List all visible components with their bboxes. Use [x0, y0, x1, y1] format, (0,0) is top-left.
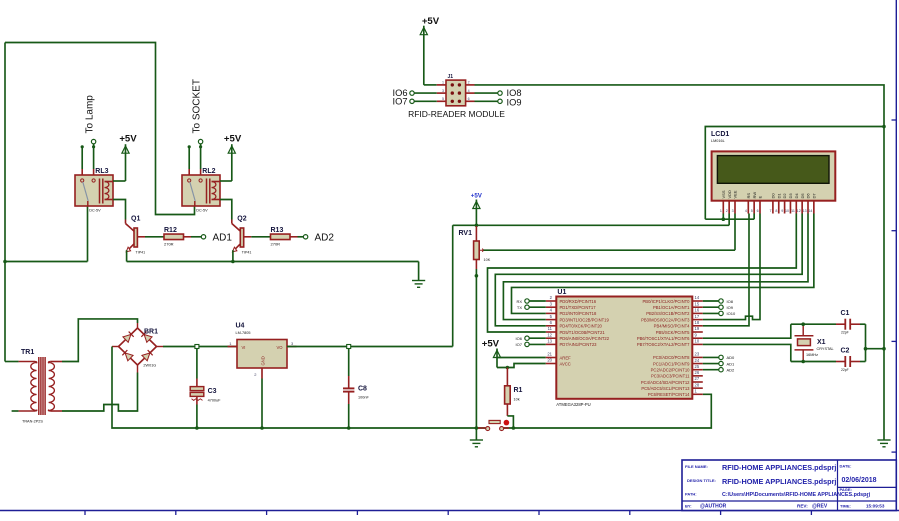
svg-text:PB0/ICP1/CLKO/PCINT0: PB0/ICP1/CLKO/PCINT0: [642, 299, 690, 304]
junction C3 top: [195, 345, 199, 349]
svg-text:IO7: IO7: [516, 342, 523, 347]
connector J1 RFID-READER MODULE: [408, 74, 505, 119]
svg-text:REV:: REV:: [797, 504, 808, 509]
wire LCD E to U1 pin17 with hop: [703, 214, 760, 320]
svg-text:Q1: Q1: [131, 216, 140, 223]
svg-text:D3: D3: [788, 193, 793, 199]
svg-text:AD2: AD2: [727, 368, 736, 373]
wire AREF: [497, 357, 546, 359]
svg-text:2W01G: 2W01G: [143, 364, 156, 368]
svg-text:IO8: IO8: [727, 299, 734, 304]
terminal AD2: [303, 233, 334, 244]
terminal IO7 at U1: [516, 342, 546, 347]
svg-text:PB4/MISO/PCINT4: PB4/MISO/PCINT4: [654, 324, 691, 329]
svg-text:RX: RX: [516, 299, 522, 304]
svg-text:RL2: RL2: [202, 168, 215, 175]
junction C8 bottom: [347, 426, 351, 430]
svg-text:BY:: BY:: [685, 504, 692, 509]
svg-text:PC4/ADC4/SDA/PCINT12: PC4/ADC4/SDA/PCINT12: [641, 380, 690, 385]
node RL2 pin dots: [188, 145, 203, 148]
transistor Q1: [126, 216, 146, 255]
svg-text:PD2/INT0/PCINT18: PD2/INT0/PCINT18: [560, 311, 597, 316]
svg-text:13: 13: [547, 339, 552, 344]
terminal IO7 at J1: [393, 96, 437, 106]
wire RV1 wiper to LCD VEE: [484, 249, 736, 251]
svg-text:PD3/INT1/OC2B/PCINT19: PD3/INT1/OC2B/PCINT19: [560, 317, 610, 322]
svg-text:VO: VO: [276, 345, 283, 350]
potentiometer RV1: [459, 225, 491, 428]
svg-text:5: 5: [442, 97, 444, 101]
title block frame: [682, 460, 896, 511]
svg-text:PC1/ADC1/PCINT9: PC1/ADC1/PCINT9: [653, 361, 690, 366]
wire emitter ground rail: [127, 262, 419, 281]
svg-text:IO10: IO10: [727, 311, 736, 316]
capacitor C1: [836, 310, 866, 335]
junction C3 bottom: [195, 426, 199, 430]
svg-text:3: 3: [442, 89, 444, 93]
svg-text:16MHz: 16MHz: [806, 353, 818, 357]
svg-text:VEE: VEE: [733, 190, 738, 198]
svg-text:X1: X1: [817, 339, 826, 346]
terminal IO9 at J1: [475, 98, 522, 108]
LCD LCD1 LM016L body: [711, 131, 835, 201]
svg-text:PC5/ADC5/SCL/PCINT13: PC5/ADC5/SCL/PCINT13: [641, 386, 690, 391]
svg-text:IO9: IO9: [507, 98, 522, 108]
svg-text:RW: RW: [752, 192, 757, 199]
wire LCD RS to U1 pin18: [703, 214, 749, 326]
wire LCD VDD to +5V line: [453, 214, 729, 226]
svg-text:D7: D7: [811, 193, 816, 199]
svg-text:C3: C3: [208, 388, 217, 395]
svg-text:PB7/TOSC2/XTAL2/PCINT7: PB7/TOSC2/XTAL2/PCINT7: [637, 342, 690, 347]
terminal AD2 at U1: [703, 368, 735, 373]
ground symbol RV1: [470, 428, 483, 447]
wire Q1 emitter to ground rail: [126, 250, 128, 261]
capacitor C8: [343, 347, 369, 429]
resistor R1: [505, 368, 523, 429]
svg-text:DC-5V: DC-5V: [89, 208, 101, 212]
power +5V AREF: [482, 338, 501, 367]
junction C8 top: [347, 345, 351, 349]
svg-text:PATH:: PATH:: [685, 491, 697, 496]
junction crystal top: [801, 322, 805, 326]
relay RL3: [75, 168, 113, 212]
node RL3 pin dots: [81, 145, 96, 148]
svg-text:11: 11: [548, 326, 553, 331]
wire U1 pin10 to crystal XTAL2: [703, 344, 791, 361]
svg-text:RFID-HOME APPLIANCES.pdsprj: RFID-HOME APPLIANCES.pdsprj: [722, 477, 836, 486]
svg-text:10k: 10k: [514, 398, 520, 402]
svg-text:270R: 270R: [271, 241, 281, 246]
wire bridge positive rail to U4: [163, 346, 237, 348]
svg-text:VDD: VDD: [727, 190, 732, 199]
crystal X1: [795, 324, 834, 361]
svg-text:23: 23: [695, 352, 700, 357]
svg-text:9: 9: [781, 209, 783, 213]
svg-text:8: 8: [775, 209, 777, 213]
svg-text:VSS: VSS: [721, 190, 726, 198]
svg-text:D2: D2: [782, 193, 787, 199]
sheet border zone ticks bottom: [85, 511, 811, 516]
svg-text:PD1/TXD/PCINT17: PD1/TXD/PCINT17: [560, 305, 597, 310]
svg-text:26: 26: [695, 370, 700, 375]
push button RESET: [478, 420, 509, 431]
svg-text:PB6/TOSC1/XTAL1/PCINT6: PB6/TOSC1/XTAL1/PCINT6: [637, 336, 690, 341]
svg-text:TX: TX: [517, 305, 522, 310]
junction RV1 ground rail: [475, 426, 479, 430]
svg-text:02/06/2018: 02/06/2018: [842, 477, 877, 484]
svg-text:5: 5: [751, 209, 753, 213]
junction Q2 emitter on rail: [231, 260, 235, 264]
wire secondary top to bridge top: [62, 319, 138, 362]
terminal AD1 at U1: [703, 361, 735, 366]
svg-text:RS: RS: [746, 193, 751, 199]
wire RL3 pin stubs top: [82, 144, 93, 169]
wire RL3 coil bottom to Q1 collector: [113, 200, 126, 220]
wire bridge negative to ground rail: [112, 347, 197, 429]
microcontroller U1 ATMEGA328P-PU body: [556, 289, 692, 407]
junction ground riser: [882, 347, 886, 351]
svg-text:TIME:: TIME:: [840, 504, 851, 509]
svg-text:R12: R12: [164, 227, 177, 234]
terminal TX: [517, 305, 546, 310]
svg-text:13: 13: [803, 209, 807, 213]
terminal IO8 at J1: [475, 88, 522, 98]
wire bus D6 to U1 pin5: [503, 214, 808, 320]
svg-text:IO9: IO9: [727, 305, 734, 310]
svg-text:TRAN-2P2S: TRAN-2P2S: [22, 420, 43, 424]
ground symbol right: [877, 440, 890, 447]
ground symbol transistor rail: [412, 281, 425, 288]
svg-text:24: 24: [695, 358, 700, 363]
wire U4 output +5V rail: [287, 346, 453, 348]
svg-text:19: 19: [695, 326, 700, 331]
svg-text:R13: R13: [271, 227, 284, 234]
svg-text:D6: D6: [806, 193, 811, 199]
wire bus D5 to U1 pin6: [495, 214, 802, 326]
svg-text:AD0: AD0: [727, 355, 736, 360]
svg-text:LM016L: LM016L: [711, 139, 725, 143]
svg-text:27: 27: [695, 376, 700, 381]
svg-text:+5V: +5V: [422, 16, 440, 27]
svg-text:PD7/AIN1/PCINT23: PD7/AIN1/PCINT23: [560, 342, 598, 347]
svg-text:6: 6: [757, 209, 759, 213]
junction LCD VSS: [722, 217, 726, 221]
sheet border right edge: [895, 0, 897, 511]
svg-text:PB5/SCK/PCINT5: PB5/SCK/PCINT5: [656, 330, 690, 335]
regulator U4 LM-7805: [228, 323, 297, 378]
svg-text:PAGE:: PAGE:: [840, 487, 852, 492]
svg-text:AD1: AD1: [727, 361, 736, 366]
wire crystal top rail: [791, 323, 836, 325]
svg-text:1: 1: [720, 209, 722, 213]
svg-text:PD6/AIN0/OC0A/PCINT22: PD6/AIN0/OC0A/PCINT22: [560, 336, 610, 341]
svg-text:22pF: 22pF: [841, 368, 849, 372]
svg-text:12: 12: [797, 209, 801, 213]
svg-text:6: 6: [468, 97, 470, 101]
svg-text:IO6: IO6: [516, 336, 523, 341]
svg-text:FILE NAME:: FILE NAME:: [685, 464, 708, 469]
svg-text:15:09:53: 15:09:53: [866, 504, 885, 509]
svg-text:U1: U1: [557, 289, 566, 296]
svg-text:C1: C1: [841, 310, 850, 317]
junction RV1 top +5V: [475, 224, 479, 228]
svg-text:C8: C8: [358, 386, 367, 393]
wire R12 to AD1: [184, 236, 202, 238]
svg-text:11: 11: [791, 209, 795, 213]
svg-text:RFID-READER MODULE: RFID-READER MODULE: [408, 109, 505, 119]
terminal AD0 at U1: [703, 355, 735, 360]
svg-text:D5: D5: [800, 193, 805, 199]
capacitor C2: [836, 347, 866, 372]
junction RV1 lower: [475, 274, 479, 278]
wire reset rail from button to U1 pin1: [504, 394, 712, 428]
svg-text:GND: GND: [260, 356, 265, 365]
svg-text:AREF: AREF: [560, 355, 572, 360]
svg-text:C:\Users\HP\Documents\RFID-HOM: C:\Users\HP\Documents\RFID-HOME APPLIANC…: [722, 492, 871, 498]
svg-text:E: E: [758, 196, 763, 199]
junction U4 GND on rail: [260, 426, 264, 430]
svg-text:To SOCKET: To SOCKET: [192, 79, 203, 133]
wire transformer primary bottom stub: [12, 410, 19, 412]
transformer TR1: [19, 349, 62, 424]
svg-text:22pF: 22pF: [841, 331, 849, 335]
U1 AREF AVCC pins: [546, 352, 571, 367]
wire R13 to AD2: [290, 236, 303, 238]
svg-text:10: 10: [785, 209, 789, 213]
svg-text:RFID-HOME APPLIANCES.pdsprj: RFID-HOME APPLIANCES.pdsprj: [722, 463, 836, 472]
wire +5V to J1 pin1: [424, 84, 437, 86]
svg-text:+5V: +5V: [119, 133, 137, 144]
svg-text:PB2/SS/OC1B/PCINT2: PB2/SS/OC1B/PCINT2: [646, 311, 690, 316]
wire RL3 coil top to +5V: [113, 180, 126, 182]
wire LCD VEE riser: [734, 214, 736, 251]
svg-text:PB1/OC1A/PCINT1: PB1/OC1A/PCINT1: [653, 305, 690, 310]
svg-text:16: 16: [695, 308, 700, 313]
svg-text:TR1: TR1: [21, 349, 34, 356]
svg-text:21: 21: [547, 352, 552, 357]
resistor R12: [164, 227, 184, 247]
terminal IO6 at U1: [516, 336, 546, 341]
wire U1 pin9 to crystal XTAL1: [703, 324, 791, 338]
title block texts: [685, 463, 885, 510]
svg-text:D4: D4: [794, 193, 799, 199]
svg-text:D1: D1: [776, 193, 781, 199]
svg-text:DATE:: DATE:: [840, 464, 852, 469]
svg-text:D0: D0: [771, 193, 776, 199]
svg-text:TIP41: TIP41: [242, 251, 252, 255]
svg-text:4: 4: [745, 209, 747, 213]
LCD pins stubs and labels: [720, 190, 817, 214]
wire U4 GND pin to ground rail: [261, 368, 263, 428]
svg-text:100nF: 100nF: [358, 396, 369, 400]
svg-text:PC6/RESET/PCINT14: PC6/RESET/PCINT14: [648, 392, 690, 397]
wire crystal bottom rail: [791, 361, 836, 363]
wire Q2 base to R13: [244, 236, 271, 238]
U1 right pins PB0-PB7: [637, 295, 703, 347]
svg-text:RL3: RL3: [95, 168, 108, 175]
svg-text:PD4/T0/XCK/PCINT20: PD4/T0/XCK/PCINT20: [560, 324, 603, 329]
svg-text:VI: VI: [242, 345, 246, 350]
svg-text:28: 28: [695, 382, 700, 387]
svg-text:+5V: +5V: [471, 193, 483, 200]
svg-text:PC2/ADC2/PCINT10: PC2/ADC2/PCINT10: [651, 368, 691, 373]
power +5V RL3: [119, 133, 137, 181]
terminal IO8 at U1: [703, 299, 734, 304]
svg-text:To Lamp: To Lamp: [85, 95, 96, 134]
svg-text:AD2: AD2: [315, 233, 335, 244]
wire RL2 pin stubs top: [189, 144, 200, 169]
wire RL2 coil bottom to Q2 collector: [220, 200, 232, 220]
bridge rectifier BR1: [112, 323, 163, 373]
svg-text:DC-5V: DC-5V: [196, 208, 208, 212]
svg-text:20: 20: [547, 358, 552, 363]
svg-text:10K: 10K: [484, 258, 491, 262]
svg-text:@AUTHOR: @AUTHOR: [700, 504, 727, 510]
wire Q2 emitter to ground rail: [232, 250, 234, 261]
wire RL2 coil top to +5V: [220, 180, 232, 182]
svg-text:7: 7: [770, 209, 772, 213]
wire bus D4 to U1 pin11: [488, 214, 797, 333]
svg-text:PB3/MOSI/OC2A/PCINT3: PB3/MOSI/OC2A/PCINT3: [641, 317, 690, 322]
wire AC rail to transformer primary top: [5, 361, 19, 363]
wire Q1 collector: [125, 220, 127, 224]
svg-text:Q2: Q2: [237, 216, 246, 223]
power +5V J1: [420, 16, 440, 85]
transistor Q2: [232, 216, 252, 255]
svg-text:12: 12: [547, 332, 552, 337]
svg-text:TIP41: TIP41: [136, 251, 146, 255]
U1 left pins PD0-PD7: [546, 295, 610, 347]
terminal To SOCKET: [192, 79, 203, 144]
wire secondary bottom to bridge bottom with hop: [62, 373, 138, 412]
wire RL3 contact to AC rail: [5, 206, 88, 262]
terminal RX: [516, 299, 545, 304]
junction R1 top: [506, 366, 510, 370]
svg-text:+5V: +5V: [482, 338, 500, 349]
resistor R13: [271, 227, 291, 247]
svg-text:270R: 270R: [164, 241, 174, 246]
svg-text:PD5/T1/OC0B/PCINT21: PD5/T1/OC0B/PCINT21: [560, 330, 606, 335]
svg-text:IO7: IO7: [393, 96, 408, 106]
wire +5V riser to VDD line: [452, 225, 454, 346]
svg-text:PC3/ADC3/PCINT11: PC3/ADC3/PCINT11: [651, 374, 690, 379]
U1 right pins PC0-PC6: [641, 352, 703, 398]
relay RL2: [182, 168, 220, 212]
sheet border bottom edge: [0, 510, 899, 512]
svg-text:CRYSTAL: CRYSTAL: [817, 347, 834, 351]
svg-text:4: 4: [468, 89, 470, 93]
svg-text:U4: U4: [236, 323, 245, 330]
svg-text:4700uF: 4700uF: [208, 399, 222, 403]
svg-text:RV1: RV1: [459, 230, 473, 237]
terminal To Lamp: [85, 95, 96, 144]
svg-text:LM-7805: LM-7805: [236, 331, 251, 335]
svg-text:LCD1: LCD1: [711, 131, 729, 138]
svg-text:17: 17: [695, 314, 700, 319]
svg-text:+5V: +5V: [224, 133, 242, 144]
wire LCD VSS to ground loop: [705, 127, 884, 441]
wire J1 pin2 to ground riser: [475, 85, 885, 127]
svg-text:ATMEGA328P-PU: ATMEGA328P-PU: [556, 402, 590, 407]
svg-text:BR1: BR1: [144, 329, 158, 336]
terminal IO9 at U1: [703, 305, 734, 310]
wire Q2 collector: [231, 220, 233, 224]
wire AC line left vertical rail: [4, 43, 6, 362]
svg-text:18: 18: [695, 320, 700, 325]
junction ground loop top: [882, 125, 886, 129]
wire bus D7 to U1 pin4: [512, 214, 814, 314]
wire caps right side to ground riser: [866, 324, 885, 361]
terminal IO10 at U1: [703, 311, 736, 316]
sheet border zone ticks right: [892, 120, 897, 452]
junction R1 bottom on reset rail: [512, 426, 516, 430]
svg-text:@REV: @REV: [812, 504, 828, 510]
wire AC top loop to RL2 contact: [5, 43, 195, 215]
svg-text:10: 10: [695, 339, 700, 344]
svg-text:25: 25: [695, 364, 700, 369]
svg-text:14: 14: [695, 295, 700, 300]
wire bottom ground rail: [197, 427, 486, 429]
svg-text:AD1: AD1: [213, 233, 233, 244]
svg-text:1: 1: [442, 81, 444, 85]
svg-text:J1: J1: [448, 74, 454, 80]
svg-text:AVCC: AVCC: [560, 361, 571, 366]
svg-text:PC0/ADC0/PCINT8: PC0/ADC0/PCINT8: [653, 355, 690, 360]
svg-text:DESIGN TITLE:: DESIGN TITLE:: [687, 478, 716, 483]
svg-text:14: 14: [808, 209, 812, 213]
svg-text:2: 2: [468, 81, 470, 85]
junction AC rail / RL3 contact: [3, 260, 7, 264]
junction crystal bottom: [801, 360, 805, 364]
junction caps mid: [864, 347, 868, 351]
wire +5V to AVCC with step: [497, 364, 546, 368]
wire Q1 base to R12: [137, 236, 164, 238]
power +5V RL2: [224, 133, 242, 181]
svg-text:3: 3: [732, 209, 734, 213]
svg-text:PD0/RXD/PCINT16: PD0/RXD/PCINT16: [560, 299, 597, 304]
capacitor C3: [190, 347, 221, 429]
terminal IO6 at J1: [393, 88, 437, 98]
svg-text:R1: R1: [514, 387, 523, 394]
svg-text:C2: C2: [841, 347, 850, 354]
terminal AD1: [201, 233, 232, 244]
power +5V RV1 (blue): [471, 193, 483, 226]
svg-text:15: 15: [695, 301, 700, 306]
svg-text:2: 2: [726, 209, 728, 213]
